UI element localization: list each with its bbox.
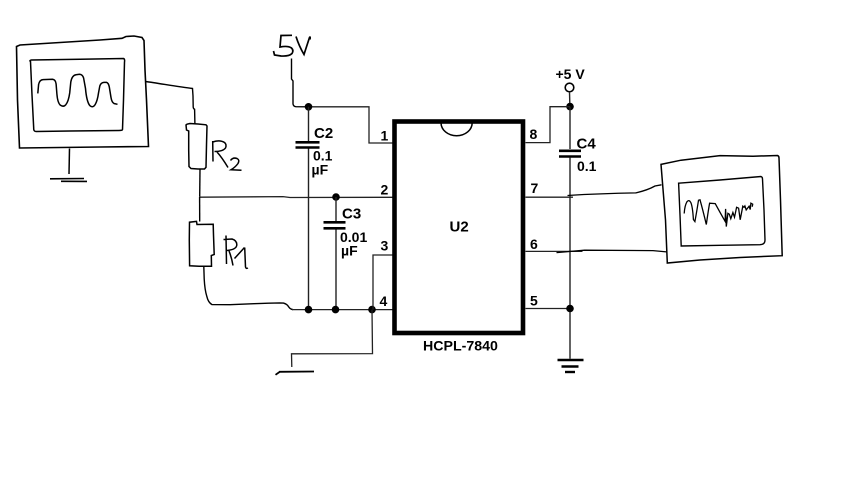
left oscilloscope waveform (38, 74, 118, 106)
junction node 5V/C2 (305, 103, 313, 111)
svg-text:HCPL-7840: HCPL-7840 (423, 339, 498, 355)
svg-text:1: 1 (381, 127, 389, 143)
right oscilloscope outer frame (661, 156, 782, 264)
ground (right, standard) (558, 359, 584, 361)
wire pin 4 row (292, 309, 393, 311)
capacitor C2 plates (296, 142, 320, 147)
junction node C3/pin2 (332, 193, 340, 201)
label R1 (handwritten) (224, 236, 249, 269)
wire R2 to node row (199, 169, 201, 197)
right oscilloscope waveform (684, 200, 753, 227)
wire pin 3 (373, 255, 393, 310)
left oscilloscope outer frame (17, 36, 149, 148)
wire pin 7 to right scope (568, 185, 662, 196)
svg-text:+5 V: +5 V (556, 66, 586, 82)
svg-text:3: 3 (381, 237, 389, 253)
wire pin 2 row (200, 196, 393, 199)
wire 5V to node (292, 59, 309, 107)
svg-text:4: 4 (380, 293, 388, 309)
wire node to R1 (199, 197, 201, 222)
svg-text:U2: U2 (450, 219, 469, 236)
wire pin 8 branch (526, 107, 571, 143)
junction dots on pin 4 row (305, 306, 313, 314)
right oscilloscope screen (679, 177, 765, 247)
resistor R2 (186, 124, 207, 170)
ground (left, hand-drawn) (276, 372, 315, 375)
resistor R1 (189, 221, 214, 266)
junction node +5V (566, 103, 574, 111)
svg-text:C4: C4 (577, 136, 597, 153)
+5 V terminal circle (565, 83, 574, 92)
wire pin 7 stub (526, 196, 574, 198)
capacitor C4 plates (559, 151, 581, 157)
svg-text:0.1: 0.1 (577, 158, 597, 174)
monitor stand base (50, 179, 87, 182)
svg-text:2: 2 (381, 181, 389, 197)
U2 notch (441, 123, 472, 136)
capacitor C4 vertical wire upper (569, 107, 571, 149)
capacitor C3 vertical wires (335, 197, 337, 310)
svg-text:µF: µF (312, 162, 329, 178)
wire +5V terminal to node (569, 92, 571, 103)
left oscilloscope stand (68, 149, 71, 175)
svg-text:8: 8 (530, 126, 538, 142)
svg-text:6: 6 (530, 236, 538, 252)
wire pin 5 stub (526, 308, 571, 310)
wire monitor to R2 (146, 82, 195, 124)
label R2 (handwritten) (213, 141, 228, 168)
svg-text:C3: C3 (342, 206, 361, 223)
svg-text:7: 7 (531, 180, 539, 196)
svg-text:C2: C2 (314, 125, 333, 142)
wire pin 6 stub (526, 250, 583, 252)
capacitor C3 plates (324, 222, 346, 228)
svg-text:5: 5 (530, 293, 538, 309)
capacitor C2 vertical wires (308, 107, 310, 310)
5V supply label (handwritten) (274, 35, 293, 56)
wire R1 to pin 4 row (204, 266, 293, 309)
capacitor C4 vertical wire lower to ground (569, 158, 571, 359)
svg-text:µF: µF (341, 243, 358, 259)
op-amp U2 body (395, 122, 524, 334)
wire node to pin 1 (309, 107, 393, 143)
wire pin 6 to right scope (557, 250, 667, 252)
wire pin4 row to ground (292, 310, 373, 367)
junction node pin 5 (566, 305, 574, 313)
left oscilloscope screen (30, 59, 125, 132)
